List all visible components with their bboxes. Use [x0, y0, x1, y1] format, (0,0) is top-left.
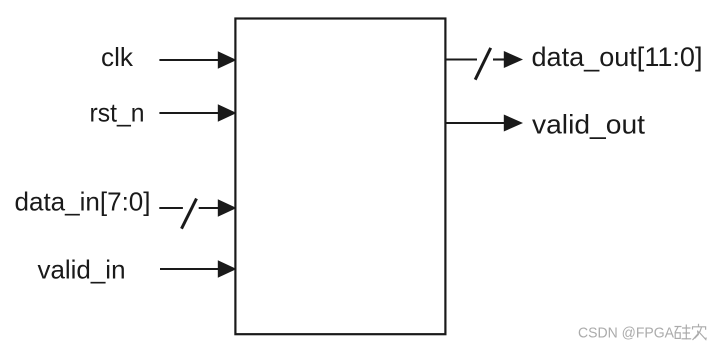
svg-text:CSDN @FPGA: CSDN @FPGA	[578, 325, 674, 342]
svg-text:valid_in: valid_in	[38, 254, 126, 284]
arrowhead valid_in	[218, 260, 237, 278]
module block	[235, 19, 445, 335]
watermark glyph 农	[692, 324, 706, 340]
bus width slash data_in	[182, 199, 197, 229]
watermark CSDN @FPGA硅农	[578, 324, 706, 342]
watermark glyph 硅	[675, 325, 692, 340]
svg-text:data_in[7:0]: data_in[7:0]	[15, 187, 151, 217]
wire clk	[159, 59, 221, 61]
wire data_out segment 1	[446, 58, 478, 60]
wire rst_n	[159, 112, 221, 114]
svg-text:clk: clk	[101, 42, 134, 72]
wire data_in segment 2	[199, 207, 221, 209]
svg-text:rst_n: rst_n	[90, 98, 145, 128]
bus width slash data_out	[475, 48, 491, 80]
svg-text:data_out[11:0]: data_out[11:0]	[532, 42, 703, 72]
arrowhead clk	[218, 51, 237, 69]
wire data_in segment 1	[159, 207, 183, 209]
arrowhead data_in	[218, 199, 237, 217]
wire valid_in	[160, 268, 221, 270]
wire data_out segment 2	[493, 58, 506, 60]
svg-text:valid_out: valid_out	[532, 109, 646, 139]
wire valid_out	[446, 122, 507, 124]
arrowhead valid_out	[504, 115, 523, 132]
arrowhead rst_n	[218, 104, 237, 122]
arrowhead data_out	[504, 51, 523, 68]
